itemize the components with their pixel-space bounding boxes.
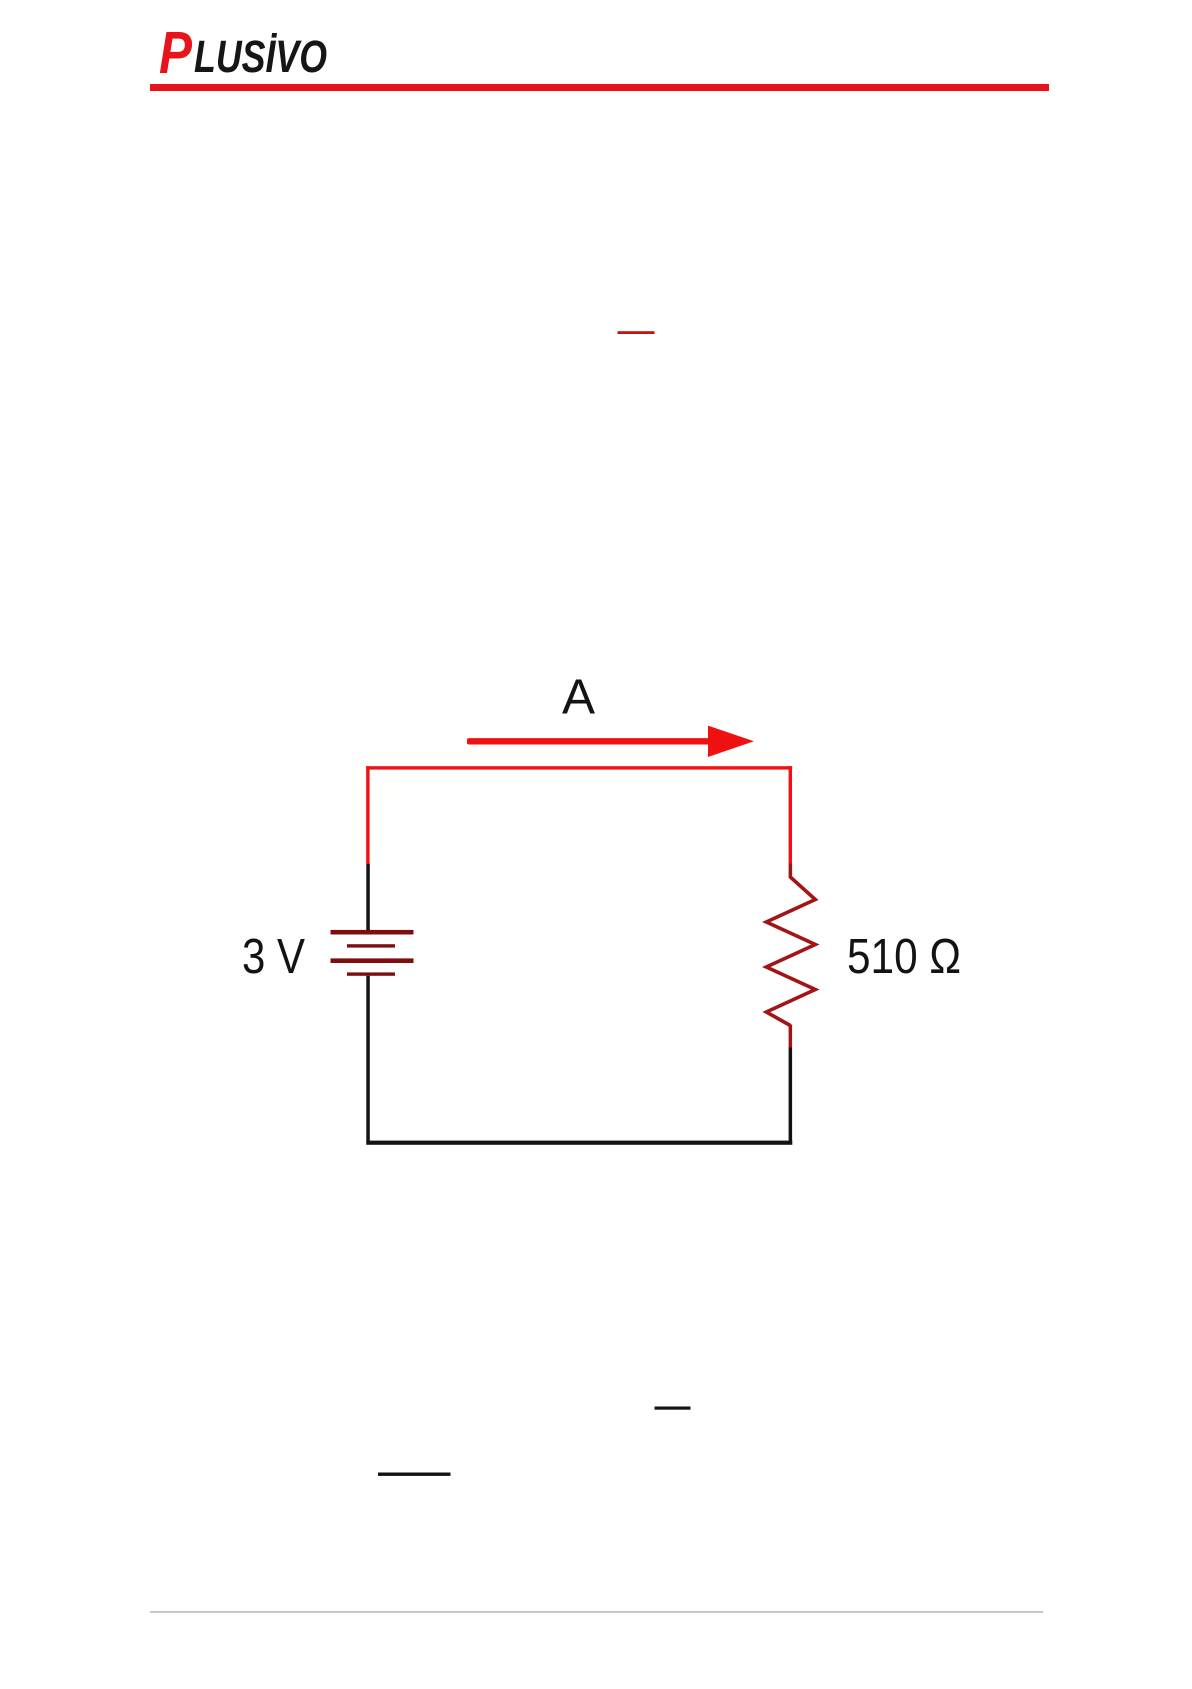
- wire left upper (red): [366, 766, 369, 863]
- header rule (red): [150, 84, 1049, 91]
- svg-text:A: A: [562, 670, 595, 725]
- wire top (red): [366, 766, 792, 769]
- answer blank underline 2 (black): [378, 1473, 451, 1476]
- wire battery - to bottom (black): [366, 976, 370, 1143]
- current direction arrow: [467, 726, 754, 757]
- svg-text:LUSİVO: LUSİVO: [194, 31, 327, 82]
- wire bottom (black): [366, 1141, 792, 1145]
- wire right upper (red): [789, 766, 792, 863]
- battery V1: [331, 930, 414, 976]
- svg-text:P: P: [159, 20, 193, 86]
- footer rule (gray): [150, 1611, 1043, 1612]
- resistor R1 zigzag: [766, 877, 815, 1026]
- wire right lower (black): [789, 1048, 793, 1143]
- wire stub from resistor bottom (dark red): [789, 1025, 793, 1048]
- hyperlink underline (red): [618, 331, 655, 334]
- wire left to battery + (black): [366, 864, 370, 931]
- svg-text:3 V: 3 V: [242, 929, 305, 984]
- svg-text:510 Ω: 510 Ω: [847, 929, 961, 984]
- answer blank underline 1 (black): [655, 1407, 691, 1410]
- wire stub to resistor top (dark red): [789, 864, 793, 879]
